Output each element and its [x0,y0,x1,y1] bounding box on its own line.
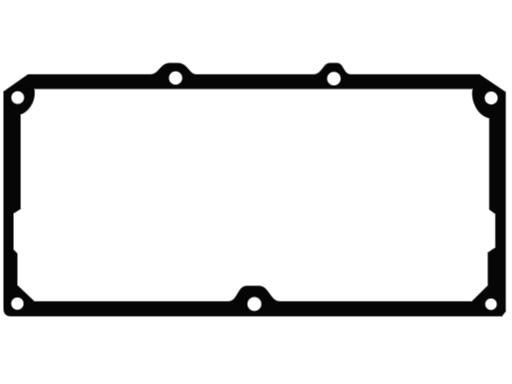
bolt hole bottom bump [247,297,261,311]
bolt hole top-right corner [485,92,498,105]
bolt hole top bump 2 [327,72,341,86]
bolt hole top bump 1 [169,71,182,84]
bolt hole bottom-left corner [11,297,23,309]
gasket body outline (outer rim + inner window, evenodd) [4,63,506,316]
bolt hole top-left corner [11,91,24,104]
bolt hole bottom-right corner [485,298,497,310]
